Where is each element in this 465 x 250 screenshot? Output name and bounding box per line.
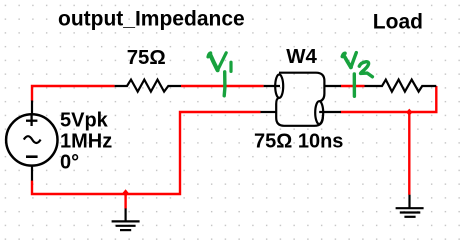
svg-text:output_Impedance: output_Impedance <box>58 8 245 31</box>
AC source minus sign <box>26 155 38 158</box>
wire: load resistor right end down to bottom-right rail <box>341 86 437 112</box>
AC voltage source body (5Vpk 1MHz 0°) <box>6 114 57 165</box>
junction dot (right, bottom rail) <box>406 109 412 116</box>
wire: W4 bottom-left pin left, down and to source bottom <box>32 112 261 194</box>
svg-text:Load: Load <box>373 10 423 33</box>
svg-text:W4: W4 <box>286 46 317 68</box>
AC source plus sign <box>26 115 37 126</box>
svg-text:0°: 0° <box>60 152 79 174</box>
wire: junction down to right ground <box>408 112 410 195</box>
transmission line W4 body <box>275 73 324 126</box>
resistor (Load) <box>365 80 437 92</box>
AC source sine symbol <box>24 136 41 143</box>
svg-text:75Ω 10ns: 75Ω 10ns <box>254 131 343 153</box>
junction dot (left, bottom rail) <box>122 189 128 197</box>
svg-text:75Ω: 75Ω <box>127 47 166 69</box>
annotation: handwritten V2 probe mark <box>342 53 372 97</box>
svg-text:5Vpk: 5Vpk <box>60 110 109 132</box>
AC source pin stubs <box>31 101 33 181</box>
wire: series resistor to W4 top-left pin (node V1) <box>181 85 264 87</box>
annotation: handwritten V1 probe mark <box>208 53 231 96</box>
resistor 75Ω (series, output impedance) <box>115 80 181 92</box>
wire: junction down to left ground <box>124 194 126 209</box>
ground (right) <box>396 195 424 217</box>
wire: W4 top-right pin to load resistor (node V2) <box>341 85 365 87</box>
transmission line W4 pins <box>261 86 342 112</box>
wire: source top up and right to series resistor <box>32 86 115 101</box>
ground (left) <box>112 208 140 230</box>
svg-text:1MHz: 1MHz <box>60 131 112 153</box>
